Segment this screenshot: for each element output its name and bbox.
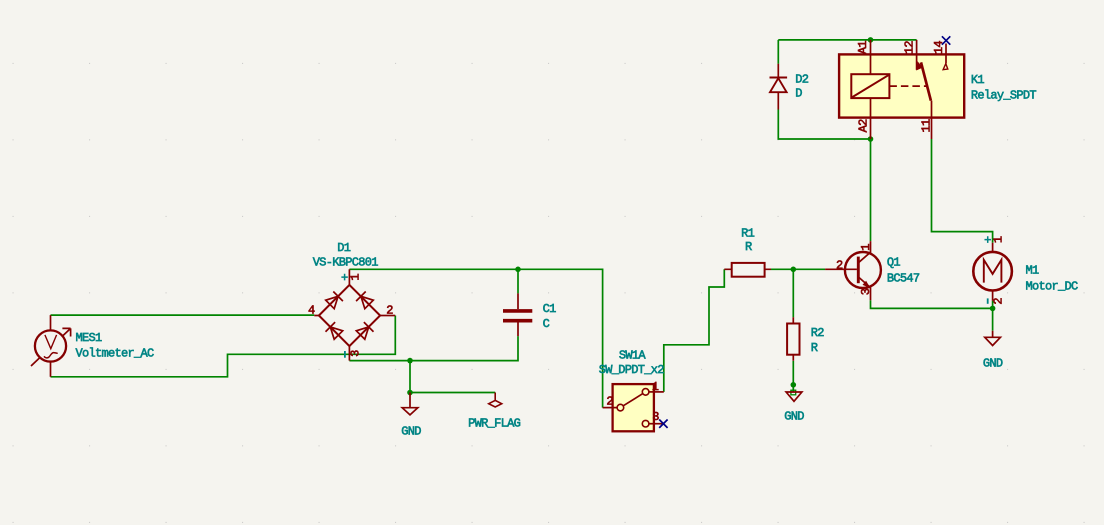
bridge diode top-right <box>356 292 374 310</box>
svg-text:K1: K1 <box>971 73 985 87</box>
relay pin A1 <box>870 40 872 74</box>
junction at bottom rail branch <box>407 358 413 364</box>
bridge pin 1 stub <box>348 269 350 285</box>
transistor Q1 base bar <box>857 257 860 284</box>
transistor Q1 base pin <box>825 268 857 270</box>
svg-text:R2: R2 <box>811 326 825 340</box>
wire M1 GND stub <box>992 308 994 330</box>
capacitor C1 pin stubs <box>517 293 519 336</box>
svg-text:R1: R1 <box>741 227 755 241</box>
relay pin 14 <box>945 44 947 64</box>
resistor R2 pin stubs <box>792 317 794 361</box>
bridge diode bottom-left <box>326 322 344 340</box>
bridge pin 3 stub <box>348 346 350 361</box>
junction at relay A2 / D2 node <box>868 136 874 142</box>
svg-text:Q1: Q1 <box>887 255 901 269</box>
wire R2 bottom to GND node <box>792 361 794 392</box>
bridge diode top-left <box>325 292 343 310</box>
svg-text:MES1: MES1 <box>76 331 103 345</box>
svg-text:1: 1 <box>348 274 362 281</box>
relay lever <box>921 62 931 100</box>
svg-text:D: D <box>795 86 802 100</box>
svg-text:4: 4 <box>308 303 315 317</box>
wire D2 top branch <box>777 40 779 64</box>
svg-text:3: 3 <box>859 288 873 295</box>
svg-text:D2: D2 <box>795 73 809 87</box>
svg-text:3: 3 <box>348 350 362 357</box>
wire M1 bottom branch <box>992 301 994 309</box>
transistor Q1 emitter <box>858 277 870 300</box>
switch pin 3 stub <box>649 423 662 425</box>
diode D2 <box>770 78 788 93</box>
wire R1 right to Q1 base <box>771 268 825 270</box>
switch lever <box>623 394 642 406</box>
wire relay A2 node down to Q1 collector <box>870 139 872 241</box>
no-connect X at switch pin 3 <box>659 420 667 428</box>
svg-text:C1: C1 <box>543 302 557 316</box>
wire Q1 emitter to M1 bottom GND node <box>871 300 993 308</box>
svg-text:14: 14 <box>932 41 946 55</box>
GND symbol at bridge node <box>402 393 418 415</box>
bridge diode bottom-right <box>356 322 374 340</box>
junction at R2 GND node <box>791 382 797 388</box>
wire to PWR_FLAG <box>410 392 495 394</box>
voltmeter pin 2 stub <box>50 360 52 376</box>
wire voltmeter top to bridge pin 4 <box>51 314 315 316</box>
bridge pin 4 stub <box>314 315 319 317</box>
svg-text:12: 12 <box>903 41 917 55</box>
relay coil box <box>851 74 889 98</box>
GND symbol at R2 <box>786 392 802 401</box>
wire relay pin 11 down to M1 top <box>932 139 993 243</box>
motor M1 pin stubs <box>992 243 994 301</box>
junction at C1 top rail <box>515 267 521 273</box>
junction at R1 / R2 / Q1 base node <box>791 267 797 273</box>
svg-text:2: 2 <box>991 298 1005 305</box>
svg-text:+: + <box>341 271 348 285</box>
voltmeter pin 1 stub <box>50 315 52 330</box>
relay K1 body <box>839 54 964 117</box>
wire top rail bridge pin 1 to C1 to SW1A pin 2 <box>349 269 602 407</box>
wire bottom rail bridge pin 3 to C1 bottom <box>349 336 518 361</box>
bridge pin 2 stub <box>380 315 395 317</box>
svg-text:C: C <box>543 317 550 331</box>
wire junction branch down to GND node <box>409 361 411 393</box>
switch pin 1 contact <box>642 389 649 396</box>
svg-text:2: 2 <box>386 303 393 317</box>
voltmeter arrow <box>31 328 71 366</box>
svg-text:GND: GND <box>401 425 421 439</box>
no-connect X at relay pin 14 <box>942 36 950 44</box>
svg-text:R: R <box>745 240 752 254</box>
transistor Q1 collector <box>858 241 870 263</box>
diode D2 pin stubs <box>777 64 779 110</box>
junction at M1 bottom / emitter node <box>990 306 996 312</box>
wire C1 top branch <box>517 269 519 293</box>
relay dashed actuator line <box>889 85 926 87</box>
svg-text:VS-KBPC801: VS-KBPC801 <box>313 255 379 269</box>
svg-text:1: 1 <box>991 236 1005 243</box>
relay pin 11 <box>931 101 933 139</box>
svg-text:3: 3 <box>652 410 659 424</box>
resistor R1 <box>732 263 765 277</box>
motor M1 M glyph <box>984 260 1002 283</box>
svg-text:SW_DPDT_x2: SW_DPDT_x2 <box>599 363 665 377</box>
voltmeter MES1 <box>35 330 66 361</box>
wire D2 bottom to relay pin A2 node <box>778 110 870 140</box>
wire voltmeter bottom loop to bridge pin 2 <box>51 316 396 377</box>
svg-text:Voltmeter_AC: Voltmeter_AC <box>76 347 155 361</box>
switch pin 3 contact <box>642 420 649 427</box>
switch pin 1 stub <box>649 391 664 393</box>
junction at GND / PWR_FLAG node <box>407 390 413 396</box>
M1 minus mark <box>987 298 989 303</box>
relay lever arrowhead <box>916 61 923 70</box>
svg-text:2: 2 <box>836 259 843 273</box>
svg-text:GND: GND <box>784 410 804 424</box>
relay pin 14 contact chevron <box>943 64 948 70</box>
voltmeter sine glyph <box>44 353 58 358</box>
capacitor C1 plates <box>503 311 532 321</box>
motor M1 body circle <box>973 252 1012 291</box>
svg-text:+: + <box>984 234 991 248</box>
PWR_FLAG symbol <box>489 393 502 408</box>
svg-text:2: 2 <box>606 395 613 409</box>
switch pin 2 stub <box>603 407 618 409</box>
switch pin 2 contact <box>617 404 624 411</box>
wire SW1A pin 1 staircase to R1 left <box>664 269 725 392</box>
svg-text:GND: GND <box>983 356 1003 370</box>
voltmeter V glyph <box>45 335 57 349</box>
svg-text:11: 11 <box>920 119 934 133</box>
resistor R1 pin stubs <box>724 268 771 270</box>
relay pin 12 <box>916 40 918 70</box>
svg-text:1: 1 <box>859 244 873 251</box>
relay coil diagonal <box>852 75 888 97</box>
bridge minus mark <box>344 351 346 358</box>
svg-text:1: 1 <box>652 380 659 394</box>
svg-text:A2: A2 <box>856 119 870 133</box>
transistor Q1 body circle <box>845 252 881 288</box>
svg-text:SW1A: SW1A <box>619 348 647 362</box>
svg-text:R: R <box>811 341 818 355</box>
svg-text:M1: M1 <box>1026 263 1040 277</box>
wire top rail D2 to relay pin 12 <box>778 39 916 41</box>
relay pin A2 <box>870 98 872 139</box>
junction at relay A1 top rail <box>868 37 874 43</box>
svg-text:BC547: BC547 <box>887 272 920 286</box>
svg-text:PWR_FLAG: PWR_FLAG <box>468 417 521 431</box>
wire R1 node down to R2 top <box>792 269 794 317</box>
GND symbol at M1 <box>985 331 1001 346</box>
svg-text:D1: D1 <box>337 241 351 255</box>
svg-text:Motor_DC: Motor_DC <box>1026 280 1079 294</box>
bridge rectifier D1 diamond <box>319 285 380 346</box>
svg-text:Relay_SPDT: Relay_SPDT <box>971 89 1037 103</box>
switch SW1A body <box>613 384 654 431</box>
resistor R2 <box>787 324 799 355</box>
transistor Q1 emitter arrow <box>863 281 871 288</box>
dangling-end square marker at R2 GND <box>791 390 796 395</box>
svg-text:A1: A1 <box>856 41 870 55</box>
